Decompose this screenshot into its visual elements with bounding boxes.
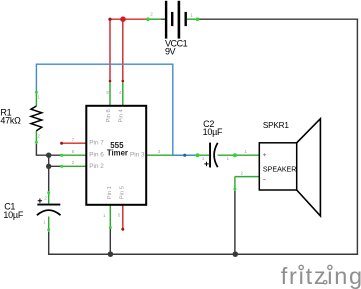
svg-text:SPKR1: SPKR1 <box>263 121 289 130</box>
svg-text:7: 7 <box>72 137 75 142</box>
svg-text:1: 1 <box>190 13 193 18</box>
svg-text:1: 1 <box>103 213 106 218</box>
svg-text:fritzing: fritzing <box>281 263 361 289</box>
svg-text:4: 4 <box>119 90 122 95</box>
svg-text:Pin 1: Pin 1 <box>107 186 113 199</box>
svg-text:2: 2 <box>72 160 75 165</box>
svg-text:Pin 5: Pin 5 <box>120 186 126 199</box>
svg-text:2: 2 <box>44 196 47 201</box>
svg-text:Pin 2: Pin 2 <box>89 163 104 170</box>
svg-text:Pin 7: Pin 7 <box>89 140 104 147</box>
svg-text:2: 2 <box>38 133 41 138</box>
svg-text:47kΩ: 47kΩ <box>0 115 21 125</box>
svg-text:Pin 8: Pin 8 <box>106 109 112 122</box>
svg-text:8: 8 <box>106 90 109 95</box>
svg-text:Pin 6: Pin 6 <box>89 152 104 159</box>
svg-text:2: 2 <box>202 156 205 161</box>
svg-text:1: 1 <box>227 156 230 161</box>
svg-text:1: 1 <box>245 149 248 154</box>
svg-text:10µF: 10µF <box>3 210 23 220</box>
svg-text:2: 2 <box>150 12 153 17</box>
svg-text:2: 2 <box>241 171 244 176</box>
svg-text:Pin 3: Pin 3 <box>130 152 145 159</box>
svg-text:1: 1 <box>38 95 41 100</box>
svg-text:1: 1 <box>43 219 46 224</box>
svg-text:9V: 9V <box>165 46 176 56</box>
svg-text:SPEAKER: SPEAKER <box>263 166 297 174</box>
svg-text:3: 3 <box>158 149 161 154</box>
svg-text:5: 5 <box>118 212 121 217</box>
svg-text:6: 6 <box>72 149 75 154</box>
svg-text:10µF: 10µF <box>203 127 223 137</box>
svg-text:Timer: Timer <box>107 148 128 157</box>
svg-text:Pin 4: Pin 4 <box>119 109 125 123</box>
